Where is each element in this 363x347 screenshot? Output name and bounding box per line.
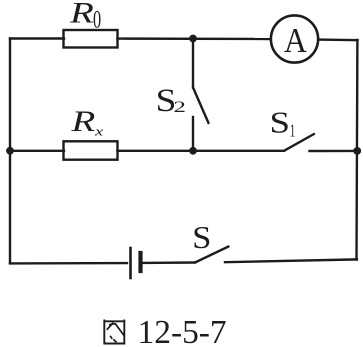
label S (192, 220, 211, 255)
wire left vertical (9, 39, 11, 264)
caption figure glyph tu (104, 320, 126, 345)
battery long plate (129, 248, 132, 278)
switch S blade (195, 247, 229, 263)
switch S2 lower wire (192, 117, 194, 151)
node junction right middle (353, 147, 361, 155)
svg-text:1: 1 (290, 121, 296, 142)
svg-text:R: R (69, 0, 94, 29)
wire S1 contact to right vertical (310, 150, 358, 153)
wire bottom left segment (10, 262, 127, 265)
svg-text:12-5-7: 12-5-7 (138, 314, 227, 347)
switch S2 upper wire (192, 39, 194, 88)
resistor Rx (64, 141, 118, 159)
label Rx (70, 105, 103, 139)
wire bottom right segment (225, 259, 357, 262)
wire top left segment (10, 37, 64, 39)
switch S2 blade (193, 88, 209, 124)
resistor R0 (64, 30, 118, 48)
svg-text:R: R (70, 105, 95, 138)
node junction S2 bottom (189, 147, 197, 155)
label S1 (270, 106, 296, 141)
svg-text:2: 2 (174, 99, 186, 116)
wire top right segment (319, 38, 358, 41)
wire battery to switch S (143, 261, 196, 264)
svg-text:0: 0 (93, 5, 101, 33)
svg-text:S: S (192, 220, 211, 255)
wire middle segment Rx to S2 node (118, 150, 194, 152)
svg-text:x: x (94, 125, 103, 138)
node junction left middle (6, 147, 14, 155)
label S2 (156, 81, 186, 118)
ammeter A (271, 15, 318, 62)
wire middle left segment (10, 150, 64, 152)
wire middle segment S2 node to S1 (193, 150, 284, 152)
node junction top S2 (189, 35, 197, 43)
svg-text:S: S (270, 106, 291, 140)
wire top middle segment (118, 37, 271, 40)
svg-text:A: A (284, 22, 307, 61)
battery short plate (138, 253, 142, 271)
switch S1 blade (284, 134, 314, 151)
wire right vertical (355, 40, 358, 260)
label R0 (69, 0, 101, 33)
